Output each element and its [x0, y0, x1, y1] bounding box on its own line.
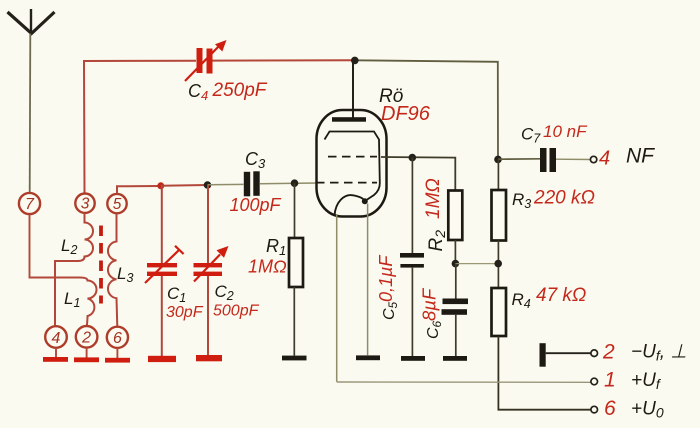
wire antenna stem to terminal 7 [29, 34, 32, 193]
wire R3 bottom lead [497, 241, 499, 289]
grid g2 (dashed) [328, 156, 377, 158]
resistor R1 [289, 238, 303, 287]
svg-text:10 nF: 10 nF [543, 122, 588, 141]
node 4 [45, 326, 67, 348]
svg-text:4: 4 [52, 330, 61, 347]
wire chassis to terminal 2 [546, 352, 591, 354]
chassis bar terminal 2 [540, 343, 546, 367]
wire junction link [455, 263, 498, 265]
ground C2 [196, 355, 222, 361]
capacitor C2 (variable) [194, 246, 229, 282]
capacitor C5 [400, 253, 424, 268]
wire C7 to NF terminal [556, 158, 591, 160]
wire C1 bottom lead [161, 276, 163, 356]
junction filament/g3 [362, 198, 368, 204]
svg-text:500pF: 500pF [213, 303, 260, 320]
wire R4 to terminal 6 [498, 336, 590, 410]
svg-text:DF96: DF96 [381, 103, 431, 125]
svg-text:100pF: 100pF [230, 195, 282, 215]
terminal 1 [591, 378, 598, 385]
capacitor C1 (trimmer) [145, 246, 184, 283]
svg-text:30pF: 30pF [166, 304, 204, 321]
wire C2 bottom lead [207, 276, 209, 355]
svg-text:1: 1 [604, 369, 616, 392]
wire node 3 to top rail [84, 61, 196, 194]
wire C2 top lead [207, 185, 209, 263]
wire g2 to R2 [381, 157, 455, 191]
terminal 4 (NF) [590, 156, 596, 162]
junction C1 tap (red) [157, 182, 164, 189]
wire C6 bottom lead [455, 315, 457, 356]
tube Rö DF96 envelope [317, 110, 387, 217]
svg-text:NF: NF [626, 145, 655, 168]
node 2 [76, 326, 98, 348]
wire C5 bottom lead [411, 268, 413, 356]
resistor R3 [492, 190, 507, 241]
svg-text:0,1µF: 0,1µF [376, 255, 396, 302]
junction R2/C6 [452, 260, 460, 268]
svg-text:4: 4 [599, 148, 610, 170]
anode plate [332, 117, 366, 122]
junction anode top [351, 57, 359, 65]
junction C5 tap [409, 154, 417, 162]
wire R2 bottom lead [454, 240, 456, 264]
wire C6 top lead [455, 264, 457, 299]
filament pin right [367, 204, 369, 356]
wire filament to terminal 1 [337, 381, 591, 383]
capacitor C6 [442, 299, 469, 315]
capacitor C7 [540, 148, 556, 172]
filament pin left [336, 214, 338, 382]
svg-text:47 kΩ: 47 kΩ [536, 285, 586, 306]
ground R1 [282, 356, 307, 361]
capacitor C3 [244, 171, 260, 196]
resistor R4 [492, 288, 507, 336]
svg-text:−Uf, ⊥: −Uf, ⊥ [631, 342, 687, 364]
wire anode node to right rail corner [355, 60, 498, 159]
wire R3 top lead [497, 159, 499, 190]
inductor L2 [55, 213, 93, 326]
wire R1 bottom lead [293, 287, 295, 356]
svg-text:2: 2 [81, 330, 91, 347]
ground node 4 [43, 357, 68, 362]
ground node 2 [74, 357, 99, 362]
wire C5 top lead [411, 158, 413, 253]
ground C5 [401, 356, 425, 361]
svg-text:7: 7 [25, 196, 35, 213]
inductor L3 [108, 213, 117, 326]
ground C1 [148, 356, 176, 362]
node 3 [75, 194, 94, 213]
wire node 5 up to grid line [117, 186, 161, 194]
svg-text:220 kΩ: 220 kΩ [533, 188, 595, 209]
resistor R2 [448, 191, 462, 241]
transformer core [99, 226, 103, 304]
terminal 6 [591, 406, 598, 413]
wire C3 to grid [260, 182, 317, 185]
ground node 6 [105, 358, 130, 363]
svg-text:5: 5 [113, 196, 122, 213]
grid g1 (dashed) [316, 182, 377, 184]
wire C4 to anode node [213, 59, 356, 61]
junction R3/R4 [494, 260, 502, 268]
svg-text:250pF: 250pF [212, 80, 268, 101]
wire R1 top lead [294, 183, 296, 238]
svg-text:1MΩ: 1MΩ [423, 178, 444, 219]
junction C7/R3 [494, 156, 502, 164]
wire node 6 to ground [116, 348, 118, 358]
capacitor C4 [185, 40, 227, 81]
wire anode lead [352, 60, 354, 117]
wire node 2 to ground [86, 348, 88, 358]
svg-text:3: 3 [81, 196, 90, 213]
svg-text:2: 2 [602, 341, 615, 364]
junction C2 tap [204, 181, 212, 189]
antenna [8, 9, 55, 34]
junction R1 top [291, 179, 299, 187]
svg-text:1MΩ: 1MΩ [248, 257, 287, 277]
node 5 [107, 194, 126, 213]
wire C1 top lead [161, 186, 163, 263]
node 6 [107, 327, 128, 348]
wire C7 left lead [498, 158, 540, 160]
node 7 [19, 193, 40, 214]
terminal 2 [591, 350, 598, 357]
wire node 4 to ground [55, 348, 57, 358]
svg-text:6: 6 [604, 397, 616, 420]
inductor L1 [80, 278, 97, 327]
svg-text:6: 6 [113, 330, 122, 347]
svg-text:8µF: 8µF [419, 287, 440, 321]
grid g3 [325, 132, 380, 201]
wire terminal 7 down to L1 tap [30, 215, 81, 278]
wire C2 tap to C3 [208, 183, 244, 185]
ground filament [356, 355, 380, 360]
filament cathode [335, 195, 366, 215]
ground C6 [443, 356, 467, 361]
wire C1 tap to C2 tap [161, 184, 208, 187]
